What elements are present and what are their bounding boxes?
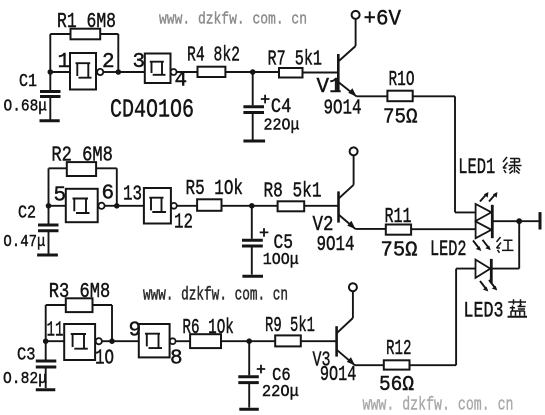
ground (C6 return bar)	[239, 408, 258, 411]
svg-text:75Ω: 75Ω	[381, 239, 418, 263]
LED2 emission arrows	[473, 240, 491, 251]
label C5	[274, 232, 294, 255]
svg-text:R8 5k1: R8 5k1	[264, 180, 322, 204]
wire node6 to R8	[252, 205, 278, 207]
wire LED3 cathode to junction riser	[491, 268, 519, 270]
label LED1	[458, 155, 495, 180]
inverter gate U1B CD40106 (pins 3-4)	[145, 54, 177, 84]
wire A4 output to R5	[177, 205, 197, 207]
value label 56 ohm (R12)	[379, 373, 414, 397]
label red (CJK)	[497, 237, 514, 253]
value label 75 ohm (R11)	[381, 239, 418, 263]
wire junction down to LED3 cathode	[518, 221, 520, 268]
svg-text:75Ω: 75Ω	[383, 106, 418, 130]
resistor R12	[384, 360, 410, 369]
output terminal bar	[539, 212, 542, 229]
collector supply terminal (V3)	[349, 283, 357, 291]
label V2	[313, 214, 334, 237]
svg-text:LED3: LED3	[464, 298, 504, 323]
svg-text:1OOμ: 1OOμ	[263, 250, 299, 269]
label C6	[272, 366, 291, 386]
svg-text:9O14: 9O14	[317, 233, 355, 257]
wire A5 output to node 8	[102, 340, 112, 342]
wire node8 to gate A6 input	[112, 340, 139, 342]
LED3 (blue) diode triangle	[476, 260, 491, 278]
label C2	[18, 204, 36, 224]
capacitor C4 (polarized)	[243, 72, 264, 140]
svg-text:R7 5k1: R7 5k1	[268, 48, 323, 72]
wire node4 to gate A3 input	[49, 205, 66, 207]
resistor R4	[198, 67, 226, 77]
svg-text:R9 5k1: R9 5k1	[265, 314, 315, 338]
resistor R1	[71, 29, 101, 40]
feedback wire top horizontal (R2 loop)	[49, 167, 117, 169]
svg-text:13: 13	[123, 183, 142, 206]
label LED2	[430, 237, 467, 262]
wire R9 to V3 base	[301, 340, 336, 342]
label blue (CJK)	[508, 299, 528, 317]
svg-text:56Ω: 56Ω	[379, 373, 414, 397]
svg-text:O.82μ: O.82μ	[3, 370, 47, 389]
pin 13 label	[123, 183, 142, 206]
node 6 (junction R5/C5/R8)	[249, 203, 255, 209]
capacitor C6 (polarized)	[238, 341, 258, 407]
wire node9 to R9	[249, 340, 275, 342]
inverter gate U1C CD40106 (pins 5-6)	[66, 189, 105, 222]
node 7 (junction C3/R3/pin11)	[43, 338, 49, 344]
svg-text:R1 6M8: R1 6M8	[57, 10, 116, 34]
wire LED1/2 cathode to junction	[492, 220, 519, 222]
label C4	[271, 96, 292, 119]
value label 220u	[264, 116, 300, 135]
node 8 (junction R3/pin10/pin9)	[109, 338, 115, 344]
label V1	[317, 76, 342, 99]
watermark www.dzkfw.com.cn (top)	[159, 11, 307, 30]
value label R7 5k1	[268, 48, 323, 72]
feedback wire left vertical (node7 up)	[45, 305, 47, 341]
ground (C5 return bar)	[242, 275, 263, 278]
resistor R6	[190, 334, 221, 348]
svg-text:R11: R11	[385, 205, 412, 229]
pin 11 label	[47, 320, 64, 343]
capacitor C1	[40, 72, 61, 120]
inverter gate U1E CD40106 (pins 11-10)	[64, 324, 102, 360]
value label R6 10k	[182, 316, 234, 340]
svg-text:www. dzkfw. com. cn: www. dzkfw. com. cn	[143, 285, 288, 305]
ground (C2 return bar)	[37, 254, 58, 257]
node LED junction	[516, 218, 522, 224]
wire LED1 rail vertical	[454, 96, 456, 212]
resistor R8	[278, 201, 305, 211]
C4 plus polarity mark	[261, 95, 270, 104]
collector supply terminal (V2)	[350, 147, 358, 155]
svg-text:22Oμ: 22Oμ	[264, 116, 300, 135]
resistor R5	[197, 199, 221, 211]
transistor V2 9014 NPN	[339, 156, 356, 230]
value label R9 5k1	[265, 314, 315, 338]
svg-text:2: 2	[102, 51, 115, 74]
svg-text:6: 6	[102, 183, 115, 206]
LED1 emission arrows	[480, 192, 497, 202]
wire node1 to gate A1 input	[50, 71, 70, 73]
node 1 (junction C1/R1/pin1)	[48, 69, 54, 75]
wire A1 output to node 2	[103, 71, 118, 73]
label R12	[386, 337, 412, 361]
svg-text:www. dzkfw. com. cn: www. dzkfw. com. cn	[363, 395, 514, 415]
svg-text:R5 1Ok: R5 1Ok	[186, 177, 244, 201]
value label R5 10k	[186, 177, 244, 201]
pin 9 label	[129, 320, 142, 343]
wire A3 output to node 5	[105, 205, 117, 207]
label R10	[389, 68, 415, 92]
wire V3 emitter to R12	[355, 364, 384, 366]
wire node5 to gate A4 input	[117, 205, 144, 207]
svg-text:O.68μ: O.68μ	[4, 98, 48, 117]
capacitor C3	[36, 341, 57, 388]
watermark www.dzkfw.com.cn (bottom)	[363, 395, 514, 415]
C6 plus polarity mark	[257, 365, 265, 374]
svg-text:+6V: +6V	[364, 6, 402, 31]
svg-text:R6 1Ok: R6 1Ok	[182, 316, 234, 340]
value label 0.82u	[3, 370, 47, 389]
svg-text:9O14: 9O14	[320, 363, 357, 387]
value label 9014 (V2)	[317, 233, 355, 257]
resistor R3	[66, 298, 93, 312]
pin 6 label	[102, 183, 115, 206]
svg-text:8: 8	[170, 348, 183, 371]
resistor R10	[387, 91, 412, 102]
label C3	[17, 346, 36, 366]
LED3 emission arrows	[480, 280, 497, 292]
label C1	[19, 72, 37, 92]
svg-text:R4 8k2: R4 8k2	[187, 44, 240, 68]
svg-text:LED1: LED1	[458, 155, 495, 180]
wire R8 to V2 base	[304, 205, 337, 207]
pin 8 label	[170, 348, 183, 371]
wire A6 output to R6	[176, 340, 191, 342]
resistor R11	[386, 225, 411, 235]
wire R4 to node 3	[225, 71, 252, 73]
pin 10 label	[95, 348, 114, 371]
ground (C3 return bar)	[36, 388, 56, 391]
label LED3	[464, 298, 504, 323]
svg-text:11: 11	[47, 320, 64, 343]
feedback wire right vertical (down to node8)	[111, 305, 113, 341]
C5 plus polarity mark	[260, 228, 269, 237]
wire R11 to LED2 anode	[411, 228, 476, 230]
svg-text:LED2: LED2	[430, 237, 467, 262]
feedback wire top horizontal	[50, 33, 118, 35]
pin 4 label	[175, 69, 188, 92]
power terminal +6V	[352, 11, 360, 19]
wire node7 to gate A5 input	[46, 340, 64, 342]
ground (C4 return bar)	[243, 140, 265, 143]
LED3 cathode bar	[490, 259, 493, 283]
resistor R2	[67, 162, 96, 176]
label green (CJK)	[503, 157, 522, 174]
pin 2 label	[102, 51, 115, 74]
wire V1 emitter to R10	[356, 95, 387, 97]
watermark www.dzkfw.com.cn (middle)	[143, 285, 288, 305]
wire node3 to R7	[253, 71, 279, 73]
svg-text:22Oμ: 22Oμ	[262, 382, 299, 401]
wire V2 emitter to R11	[355, 228, 386, 230]
transistor V1 9014 NPN	[338, 19, 356, 97]
node 2 (junction R1/pin2/pin3)	[116, 69, 122, 75]
svg-text:O.47μ: O.47μ	[3, 233, 45, 252]
wire rail to LED3 anode	[456, 268, 475, 270]
value label R3 6M8	[49, 280, 111, 304]
ground (C1 return bar)	[40, 119, 60, 122]
LED2 (red) diode triangle	[476, 221, 492, 238]
value label 9014 (V1)	[324, 96, 362, 120]
svg-text:1: 1	[58, 51, 71, 74]
wire R5 to node 6	[222, 205, 252, 207]
value label R4 8k2	[187, 44, 240, 68]
svg-text:5: 5	[54, 184, 67, 207]
svg-text:3: 3	[133, 51, 146, 74]
svg-text:9O14: 9O14	[324, 96, 362, 120]
svg-text:C1: C1	[19, 72, 37, 92]
svg-text:1O: 1O	[95, 348, 114, 371]
resistor R9	[275, 335, 301, 346]
value label 100u	[263, 250, 299, 269]
capacitor C2	[38, 206, 59, 254]
svg-text:C3: C3	[17, 346, 36, 366]
value label 0.47u	[3, 233, 45, 252]
node 9 (junction R6/C6/R9)	[246, 338, 252, 344]
label V3	[313, 349, 331, 372]
svg-text:www. dzkfw. com. cn: www. dzkfw. com. cn	[159, 11, 307, 30]
label +6V	[364, 6, 402, 31]
pin 3 label	[133, 51, 146, 74]
value label R2 6M8	[51, 143, 113, 167]
wire LED3 rail vertical (up)	[455, 269, 457, 366]
wire R12 to LED3 rail corner	[410, 364, 457, 366]
feedback wire left vertical (node4 up)	[48, 168, 50, 206]
value label 9014 (V3)	[320, 363, 357, 387]
feedback wire left vertical (node1 up)	[49, 34, 51, 72]
pin 5 label	[54, 184, 67, 207]
label R11	[385, 205, 412, 229]
feedback wire right vertical (down to node5)	[116, 168, 118, 206]
IC label CD40106	[110, 95, 194, 125]
capacitor C5 (polarized)	[242, 206, 263, 275]
pin 1 label	[58, 51, 71, 74]
value label R1 6M8	[57, 10, 116, 34]
resistor R7	[279, 68, 303, 78]
svg-text:R3 6M8: R3 6M8	[49, 280, 111, 304]
node 5 (junction R2/pin6/pin13)	[114, 203, 120, 209]
wire R7 to V1 base	[303, 72, 338, 74]
pin 12 label	[174, 212, 193, 235]
wire node2 to gate A2 input	[118, 71, 145, 73]
svg-text:CD4O1O6: CD4O1O6	[110, 95, 194, 125]
value label 0.68u	[4, 98, 48, 117]
feedback wire right vertical (down to node2)	[117, 34, 119, 72]
wire R6 to node 9	[221, 340, 249, 342]
svg-text:R2 6M8: R2 6M8	[51, 143, 113, 167]
value label 220u (C6)	[262, 382, 299, 401]
LED1 (green) diode triangle	[476, 204, 492, 221]
node 3 (junction R4/C4/R7)	[250, 69, 256, 75]
svg-text:12: 12	[174, 212, 193, 235]
svg-text:C2: C2	[18, 204, 36, 224]
wire R10 to LED rail corner	[413, 95, 455, 97]
node 4 (junction C2/R2/pin5)	[46, 203, 52, 209]
wire rail to LED1 anode	[455, 211, 476, 213]
value label 75 ohm (R10)	[383, 106, 418, 130]
inverter gate U1D CD40106 (pins 13-12)	[144, 188, 177, 224]
feedback wire top horizontal (R3 loop)	[46, 304, 112, 306]
svg-text:R12: R12	[386, 337, 412, 361]
inverter gate U1A CD40106 (pins 1-2)	[70, 53, 103, 90]
svg-text:R1O: R1O	[389, 68, 415, 92]
wire junction to output terminal	[519, 220, 538, 222]
transistor V3 9014 NPN	[337, 291, 356, 365]
LED1/LED2 cathode bar	[491, 205, 494, 238]
wire A2 output to R4	[177, 71, 198, 73]
inverter gate U1F CD40106 (pins 9-8)	[139, 324, 176, 357]
value label R8 5k1	[264, 180, 322, 204]
svg-text:V1: V1	[317, 76, 342, 99]
